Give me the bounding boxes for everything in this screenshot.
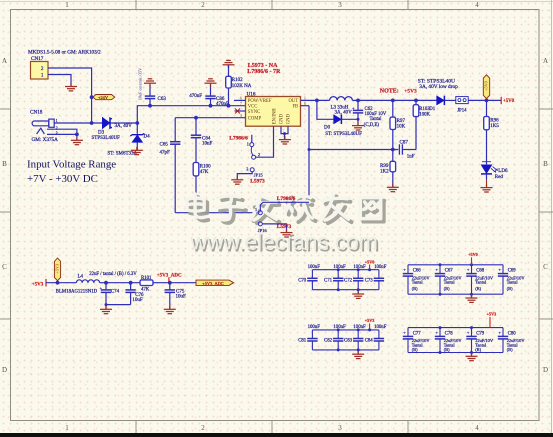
ground bank <box>357 290 359 294</box>
svg-text:C71: C71 <box>324 278 333 283</box>
svg-text:C87: C87 <box>400 140 409 145</box>
pin SYNC no-connect X <box>235 110 246 112</box>
svg-text:(B): (B) <box>475 286 481 291</box>
svg-text:(B): (B) <box>475 347 481 352</box>
wire CN17 pin1 to ground <box>48 75 71 87</box>
svg-text:POW/VREF: POW/VREF <box>248 99 272 104</box>
junction +24V column <box>90 121 94 125</box>
svg-text:GND: GND <box>286 113 291 124</box>
svg-text:R96: R96 <box>490 118 499 123</box>
resistor R101 47K <box>140 280 153 286</box>
pin FB wire down <box>301 105 310 107</box>
svg-text:D0: D0 <box>324 126 331 131</box>
svg-text:3A, 40V low drop: 3A, 40V low drop <box>419 84 458 90</box>
bottom black strip <box>0 433 553 437</box>
svg-text:C84: C84 <box>365 339 374 344</box>
svg-text:+: + <box>403 330 406 335</box>
svg-text:(B): (B) <box>444 347 450 352</box>
svg-text:D4: D4 <box>144 135 151 140</box>
svg-text:+: + <box>467 267 470 272</box>
svg-text:FB: FB <box>292 105 298 110</box>
svg-text:1K5: 1K5 <box>490 124 499 129</box>
capacitor C72 100nF <box>357 270 359 290</box>
svg-text:C72: C72 <box>344 278 353 283</box>
svg-text:GM: X375A: GM: X375A <box>32 137 59 143</box>
regulator U16 L5973/L7986 <box>246 97 301 127</box>
svg-text:+: + <box>352 106 355 111</box>
wire JP16 pin2 to ground <box>262 224 286 233</box>
resistor R97 10K <box>391 99 395 103</box>
svg-text:+: + <box>403 267 406 272</box>
watermark glyph fa <box>254 196 280 223</box>
svg-text:100nF: 100nF <box>353 325 366 330</box>
svg-text:47K: 47K <box>200 170 209 175</box>
svg-text:MKDS1.5-5.08 or GM: ARK103/2: MKDS1.5-5.08 or GM: ARK103/2 <box>28 50 101 56</box>
svg-text:B: B <box>2 160 7 168</box>
svg-text:1: 1 <box>41 73 44 79</box>
svg-text:C62: C62 <box>365 107 374 112</box>
svg-text:CN18: CN18 <box>30 110 43 116</box>
svg-text:A: A <box>2 57 7 65</box>
svg-text:+: + <box>435 330 438 335</box>
svg-text:R99: R99 <box>380 164 389 169</box>
ground bank <box>357 350 359 354</box>
capacitor C69 22uF tantal <box>502 265 504 294</box>
svg-text:+5V3: +5V3 <box>54 264 59 274</box>
capacitor C82 100nF <box>337 330 339 350</box>
svg-text:+: + <box>435 267 438 272</box>
svg-text:1: 1 <box>65 424 69 432</box>
ground below C75 <box>164 306 176 314</box>
capacitor C77 22uF tantal <box>407 328 409 353</box>
diode D3 STPS3L40UF <box>102 117 110 128</box>
svg-text:C: C <box>2 263 7 271</box>
net label +5V3 vertical flag bottom <box>56 281 60 285</box>
svg-text:R97: R97 <box>397 119 406 124</box>
wire jumper to EN/INH <box>256 126 274 157</box>
svg-text:(B): (B) <box>507 347 513 352</box>
wire L4 to R101 <box>100 282 140 284</box>
svg-text:10uF: 10uF <box>132 298 143 303</box>
svg-text:U16: U16 <box>247 91 256 97</box>
svg-text:D: D <box>2 366 7 374</box>
svg-text:Input Voltage Range: Input Voltage Range <box>27 158 116 170</box>
svg-text:(B): (B) <box>507 286 513 291</box>
svg-text:+7V - +30V DC: +7V - +30V DC <box>27 173 98 185</box>
wire CN18 pin1 main input <box>54 122 102 124</box>
wire input node up to VCC rail <box>137 106 245 123</box>
svg-text:OUT: OUT <box>289 99 299 104</box>
wire FB select to JP16 <box>263 201 309 203</box>
svg-text:C82: C82 <box>324 339 333 344</box>
svg-text:47pF: 47pF <box>160 151 171 156</box>
svg-text:3: 3 <box>246 167 248 172</box>
svg-text:VCC: VCC <box>248 105 258 110</box>
svg-text:C65: C65 <box>160 143 169 148</box>
svg-text:3: 3 <box>56 132 58 136</box>
svg-text:A: A <box>543 57 548 65</box>
watermark glyph wang <box>363 201 384 222</box>
svg-text:JP16: JP16 <box>258 228 268 233</box>
comp network bottom wire <box>175 212 258 214</box>
svg-text:Tantal: Tantal <box>370 117 383 122</box>
pin POW/VREF wire <box>234 99 246 101</box>
svg-text:47K: 47K <box>141 288 150 293</box>
ground below D4 <box>131 147 143 155</box>
svg-text:100nF: 100nF <box>374 325 387 330</box>
capacitor C66 22uF tantal <box>407 265 409 294</box>
svg-text:2: 2 <box>201 1 205 9</box>
svg-text:L4: L4 <box>78 274 84 279</box>
inductor L3 33uH <box>330 97 353 101</box>
svg-text:+5V0: +5V0 <box>365 259 375 264</box>
svg-text:+5V0: +5V0 <box>468 252 478 257</box>
net label +24V <box>90 95 94 99</box>
junction switch node <box>315 99 319 103</box>
svg-text:(B): (B) <box>412 347 418 352</box>
capacitor C74 22uF <box>104 281 108 285</box>
svg-text:(C,D,E): (C,D,E) <box>364 123 380 128</box>
ground below C62 <box>352 122 364 130</box>
svg-text:COMP: COMP <box>248 117 262 122</box>
svg-text:JP14: JP14 <box>457 109 467 114</box>
capacitor bank C70-C73 rails <box>312 270 379 290</box>
resistor R103 100K <box>414 99 418 103</box>
capacitor C73 100nF <box>378 270 380 290</box>
ferrite bead L4 BLM18AG121SN1D <box>76 280 99 283</box>
svg-text:100nF: 100nF <box>333 325 346 330</box>
svg-text:C64: C64 <box>202 136 211 141</box>
wire CN18 pins 2,3 to ground <box>47 129 77 134</box>
svg-text:+: + <box>498 330 501 335</box>
svg-text:C77: C77 <box>413 332 422 337</box>
ground below CN18 <box>71 137 83 145</box>
power rail symbol above R102 <box>223 60 235 68</box>
svg-text:+: + <box>100 285 103 290</box>
svg-text:470nF: 470nF <box>189 94 202 99</box>
svg-text:Tantal: Tantal <box>444 280 456 285</box>
jumper JP16 <box>258 211 262 215</box>
svg-text:R102: R102 <box>232 78 243 83</box>
ground below R99 <box>387 184 399 192</box>
svg-text:3: 3 <box>338 424 342 432</box>
svg-text:1: 1 <box>247 142 249 147</box>
svg-text:100nF: 100nF <box>308 265 321 270</box>
wire +5V3 to L4 <box>46 282 76 284</box>
capacitor C70 100nF <box>311 270 313 290</box>
capacitor C83 100nF <box>357 330 359 350</box>
wire CN17 pin2 to +24V node <box>48 68 92 123</box>
wire L3 to output node <box>352 99 436 101</box>
svg-text:+: + <box>498 267 501 272</box>
capacitor C84 100nF <box>378 330 380 350</box>
watermark glyph you <box>325 196 352 223</box>
svg-text:10K: 10K <box>397 125 406 130</box>
wire C74 C76 to ground <box>106 304 131 306</box>
TVS diode D4 SM6T33A <box>136 123 138 134</box>
svg-text:1: 1 <box>65 1 69 9</box>
ground below CN17 <box>65 83 77 91</box>
wire R101 to ADC label <box>153 282 196 284</box>
svg-text:+5V0: +5V0 <box>503 99 515 104</box>
capacitor C80 22uF tantal <box>502 328 504 353</box>
pin numbers U16 <box>240 96 306 118</box>
resistor R100 47K <box>195 138 197 163</box>
svg-text:(B): (B) <box>412 286 418 291</box>
capacitor C67 22uF tantal <box>439 265 441 294</box>
svg-text:7: 7 <box>240 102 242 106</box>
capacitor C75 10uF <box>168 281 172 285</box>
diode D0 STPS3L40UF catch <box>317 100 334 119</box>
svg-text:3A, 40V: 3A, 40V <box>115 124 133 129</box>
svg-text:BLM18AG121SN1D: BLM18AG121SN1D <box>56 290 98 295</box>
svg-text:+5V3: +5V3 <box>32 283 44 288</box>
svg-text:JP15: JP15 <box>254 172 264 177</box>
resistor R96 1K5 <box>486 100 488 116</box>
svg-text:+5V3: +5V3 <box>365 318 375 323</box>
resistor R99 1K2 <box>392 150 394 162</box>
svg-text:Tantal: Tantal <box>475 280 487 285</box>
capacitor C87 1nF <box>399 144 402 154</box>
svg-text:2: 2 <box>258 152 260 157</box>
ground below C74 <box>100 306 112 314</box>
svg-text:D1: D1 <box>429 107 435 112</box>
capacitor C78 22uF tantal <box>439 328 441 353</box>
svg-text:C78: C78 <box>445 332 454 337</box>
wire D3 cathode to input node <box>110 122 137 124</box>
svg-text:C81: C81 <box>298 339 307 344</box>
svg-text:Tantal: Tantal <box>412 280 424 285</box>
pin COMP wire <box>175 117 245 119</box>
svg-text:4: 4 <box>475 424 479 432</box>
svg-text:+5V3_ADC: +5V3_ADC <box>157 273 182 278</box>
svg-text:Tantal: Tantal <box>507 280 519 285</box>
svg-text:+5V3_ADC: +5V3_ADC <box>202 281 224 286</box>
svg-text:+5V3: +5V3 <box>487 312 497 317</box>
capacitor bank C81-C84 rails <box>312 330 379 350</box>
net label +5V0 vertical flag <box>485 99 489 103</box>
svg-text:+: + <box>467 330 470 335</box>
svg-text:6: 6 <box>240 96 242 100</box>
svg-text:1: 1 <box>255 207 257 212</box>
LED LD6 Red <box>486 130 488 165</box>
svg-text:22uF / tantal / (B) / 6.3V: 22uF / tantal / (B) / 6.3V <box>89 272 137 277</box>
capacitor bank C66-C69 rails <box>408 265 503 294</box>
svg-text:D: D <box>543 366 548 374</box>
capacitor C79 22uF tantal <box>471 328 473 353</box>
wire OUT rail <box>301 99 330 101</box>
ground below LD6 <box>481 184 493 192</box>
svg-text:C66: C66 <box>413 269 422 274</box>
svg-text:L7986/6: L7986/6 <box>229 136 248 142</box>
svg-text:1nF: 1nF <box>407 154 415 159</box>
svg-text:R100: R100 <box>200 164 211 169</box>
ground JP15 <box>231 176 243 184</box>
svg-text:NOTE:: NOTE: <box>380 88 399 94</box>
svg-text:102K NA: 102K NA <box>232 84 252 89</box>
svg-text:10nF: 10nF <box>202 142 213 147</box>
svg-text:GND: GND <box>279 113 284 124</box>
power rail symbol above C63 <box>144 79 156 87</box>
watermark glyph dian <box>190 197 208 221</box>
capacitor bank C77-C80 rails <box>408 328 503 353</box>
feedback node wire <box>309 149 398 151</box>
svg-text:C80: C80 <box>508 332 517 337</box>
jumper JP14 <box>456 97 468 104</box>
svg-text:STPS3L40UF: STPS3L40UF <box>92 136 121 141</box>
svg-text:100nF: 100nF <box>374 265 387 270</box>
power rail symbol above C86 <box>205 79 217 87</box>
svg-text:C70: C70 <box>298 278 307 283</box>
svg-text:2: 2 <box>201 424 205 432</box>
capacitor C71 100nF <box>337 270 339 290</box>
svg-text:10uF: 10uF <box>176 294 187 299</box>
svg-text:(B): (B) <box>444 286 450 291</box>
watermark glyph shao <box>288 197 316 222</box>
svg-text:SYNC: SYNC <box>248 110 261 115</box>
svg-text:C63: C63 <box>158 97 167 102</box>
power port +5V0 <box>500 97 502 104</box>
svg-text:L7986/6: L7986/6 <box>277 196 296 202</box>
svg-text:C79: C79 <box>476 332 485 337</box>
svg-text:100K: 100K <box>419 112 430 117</box>
capacitor C76 10uF <box>129 281 133 285</box>
svg-text:+24V: +24V <box>98 95 109 100</box>
svg-text:C69: C69 <box>508 269 517 274</box>
svg-text:1: 1 <box>304 96 306 100</box>
svg-text:C74: C74 <box>111 289 120 294</box>
svg-text:100nF: 100nF <box>333 265 346 270</box>
svg-text:R101: R101 <box>141 276 152 281</box>
wire JP14 to +5V0 <box>468 99 501 101</box>
ground bank <box>471 353 473 357</box>
capacitor C62 100nF output <box>356 99 360 103</box>
capacitor C81 100nF <box>311 330 313 350</box>
svg-text:ST: STPS3L40UF: ST: STPS3L40UF <box>325 132 362 137</box>
ground below U16 <box>279 136 291 144</box>
svg-text:D3: D3 <box>98 130 105 135</box>
svg-text:Red: Red <box>495 175 504 180</box>
svg-text:2: 2 <box>41 66 44 72</box>
capacitor C64 10nF <box>194 116 198 120</box>
svg-text:4: 4 <box>475 1 479 9</box>
svg-text:LD6: LD6 <box>498 169 508 174</box>
svg-text:L5973: L5973 <box>277 224 292 230</box>
watermark glyph zi <box>220 199 246 223</box>
svg-text:+5V0: +5V0 <box>483 81 488 91</box>
svg-text:3: 3 <box>338 1 342 9</box>
svg-text:L5973: L5973 <box>250 179 265 185</box>
svg-text:+5V3: +5V3 <box>404 88 417 94</box>
U16 GND pins to ground <box>281 126 288 133</box>
svg-text:10uF ceramic /35V: 10uF ceramic /35V <box>138 68 143 100</box>
svg-text:L7986/6 - 7R: L7986/6 - 7R <box>247 69 281 75</box>
ground JP16 <box>281 229 293 237</box>
svg-text:B: B <box>543 160 548 168</box>
svg-text:C67: C67 <box>445 269 454 274</box>
svg-text:100nF: 100nF <box>308 325 321 330</box>
svg-text:C68: C68 <box>476 269 485 274</box>
svg-text:C83: C83 <box>344 339 353 344</box>
svg-text:100nF: 100nF <box>353 265 366 270</box>
svg-text:C: C <box>543 263 548 271</box>
ground bank <box>471 294 473 298</box>
svg-text:C73: C73 <box>365 278 374 283</box>
svg-text:1K2: 1K2 <box>380 170 389 175</box>
capacitor C68 22uF tantal <box>471 265 473 294</box>
svg-text:EN/INH: EN/INH <box>272 108 277 124</box>
net label +5V3_ADC arrow <box>196 280 234 285</box>
svg-text:3A, 40V: 3A, 40V <box>335 111 353 116</box>
